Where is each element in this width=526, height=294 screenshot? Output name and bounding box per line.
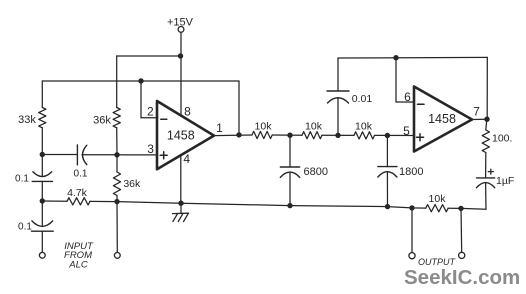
wire node B to 36k lower [116, 155, 118, 172]
wire U1 pin 4 to ground rail [180, 155, 182, 203]
svg-text:4: 4 [183, 152, 190, 166]
resistor 36k upper [113, 108, 120, 128]
input terminal 1 [39, 252, 45, 258]
wire U1 output [214, 134, 252, 137]
wire feedback right leg (top to pin 7) [486, 57, 488, 119]
wire 10k to U2 pin 5 [375, 134, 415, 136]
wire 1uF to ground rail [485, 183, 487, 209]
node output tap right [458, 206, 463, 211]
svg-text:6: 6 [404, 90, 411, 104]
resistor 10k output [426, 205, 449, 212]
wire 0.01 lower lead [337, 98, 339, 136]
wire node A to coupling cap [42, 154, 77, 156]
resistor 10k third [354, 132, 375, 139]
wire node D to ALC terminal [116, 202, 118, 253]
wire cap to node B [82, 154, 117, 156]
wire feedback bus (output to pin 2 and 33k) [42, 80, 239, 82]
capacitor 1uF [477, 177, 495, 179]
output terminal right [459, 252, 465, 258]
capacitor 0.1 shunt lower [32, 221, 53, 227]
node 6800-ground [287, 203, 292, 208]
wire 1800 lower lead [386, 172, 388, 207]
wire cap to input terminal [41, 231, 43, 252]
wire U2 output [472, 118, 487, 120]
wire 10k to node E [272, 134, 302, 136]
capacitor 0.1 coupling (horizontal) [76, 145, 78, 165]
svg-text:1458: 1458 [428, 112, 456, 126]
U2 plus sign [417, 136, 424, 138]
wire 6800 lower lead [289, 172, 291, 205]
wire pin 2 stub [141, 117, 158, 119]
resistor 4.7k [67, 198, 90, 205]
svg-text:2: 2 [147, 105, 154, 119]
svg-text:1µF: 1µF [496, 175, 514, 187]
wire ground rail (left part) [117, 202, 426, 209]
resistor 10k second [302, 132, 322, 139]
U1 minus sign [161, 118, 167, 120]
wire +15V down to op-amp U1 pin 8 [180, 32, 182, 115]
capacitor 0.01 [328, 98, 349, 103]
svg-text:36k: 36k [123, 178, 141, 190]
wire pin 6 drop [395, 58, 397, 102]
node C (input node) [40, 198, 45, 203]
svg-text:1800: 1800 [399, 166, 423, 178]
wire 33k upper lead [41, 81, 43, 108]
node pin-6 tap [393, 55, 398, 60]
svg-text:5: 5 [403, 124, 410, 138]
svg-text:7: 7 [473, 104, 480, 118]
wire pin 3 stub [117, 154, 158, 156]
svg-text:1: 1 [216, 121, 223, 135]
wire 36k lower to node D [116, 196, 118, 202]
ground symbol [180, 203, 182, 213]
svg-text:10k: 10k [305, 120, 323, 132]
node G (1800 tap) [385, 133, 390, 138]
op-amp U2 1458 [414, 87, 472, 152]
svg-text:36k: 36k [93, 114, 111, 126]
wire 1800 upper lead [386, 136, 388, 167]
input terminal 2 (ALC) [114, 253, 120, 259]
wire pin 7 node to 100 ohm [486, 119, 487, 130]
wire 36k upper lead [116, 56, 118, 108]
svg-text:ALC: ALC [68, 260, 88, 271]
wire output drop right [460, 208, 463, 252]
resistor 10k first [252, 131, 272, 138]
node V+ junction [178, 53, 183, 58]
wire ground rail (right part) [448, 207, 486, 210]
svg-text:SeekIC.com: SeekIC.com [404, 266, 520, 289]
wire feedback right leg [238, 81, 240, 135]
resistor 33k [39, 108, 46, 128]
capacitor 1uF polarity plus [488, 171, 493, 173]
+15V supply terminal [178, 27, 184, 33]
svg-text:10k: 10k [255, 120, 273, 132]
svg-text:0.1: 0.1 [18, 222, 32, 233]
wire V+ branch to 36k top [117, 55, 181, 57]
wire pin 2 drop [140, 81, 142, 118]
wire cap to node C [41, 181, 43, 201]
wire node C to 4.7k [42, 200, 67, 202]
wire node C down to 0.1 cap lower [41, 201, 43, 226]
resistor 36k lower [113, 172, 120, 196]
svg-text:4.7k: 4.7k [67, 187, 88, 199]
wire 100 ohm to 1uF [485, 153, 487, 178]
wire 33k to node A [41, 128, 43, 155]
svg-text:0.1: 0.1 [74, 169, 88, 180]
resistor 100 [482, 130, 489, 153]
wire U2 feedback top line [338, 56, 487, 59]
svg-text:0.1: 0.1 [15, 174, 29, 185]
svg-text:8: 8 [184, 105, 191, 119]
node A (33k / 0.1 caps junction) [40, 152, 45, 157]
wire 10k to node F [322, 134, 354, 136]
node pin-2 tap [138, 78, 143, 83]
U2 minus sign [418, 103, 425, 105]
capacitor 0.1 shunt upper [33, 172, 52, 177]
node U2 output junction [484, 117, 489, 122]
output terminal left [409, 253, 415, 259]
node E (6800 tap) [287, 133, 292, 138]
wire pin 6 stub [396, 101, 415, 103]
wire 6800 upper lead [289, 135, 291, 167]
svg-text:10k: 10k [429, 193, 447, 205]
wire node A down to 0.1 cap [41, 155, 43, 177]
U1 plus sign [160, 154, 167, 156]
wire output drop left [411, 208, 413, 253]
svg-text:+15V: +15V [167, 16, 194, 28]
node ground junction [178, 201, 183, 206]
svg-text:33k: 33k [18, 114, 36, 126]
node output/feedback junction [236, 132, 241, 137]
svg-text:3: 3 [147, 142, 154, 156]
svg-text:100.: 100. [492, 133, 512, 145]
node B (pin 3 node) [114, 152, 119, 157]
node 1800-ground [385, 204, 390, 209]
node F (0.01 tap) [335, 133, 340, 138]
wire 4.7k to node D [90, 200, 117, 202]
capacitor 6800 [280, 166, 299, 168]
node output tap left [409, 205, 414, 210]
wire 36k to node B [116, 128, 118, 155]
op-amp U1 1458 [157, 101, 214, 169]
node D (ground rail left) [114, 199, 119, 204]
wire 0.01 to top feedback line [337, 58, 339, 91]
svg-text:6800: 6800 [304, 166, 328, 178]
svg-text:10k: 10k [355, 121, 373, 133]
svg-text:1458: 1458 [167, 129, 195, 143]
svg-text:0.01: 0.01 [352, 93, 373, 105]
capacitor 1800 [378, 166, 397, 168]
